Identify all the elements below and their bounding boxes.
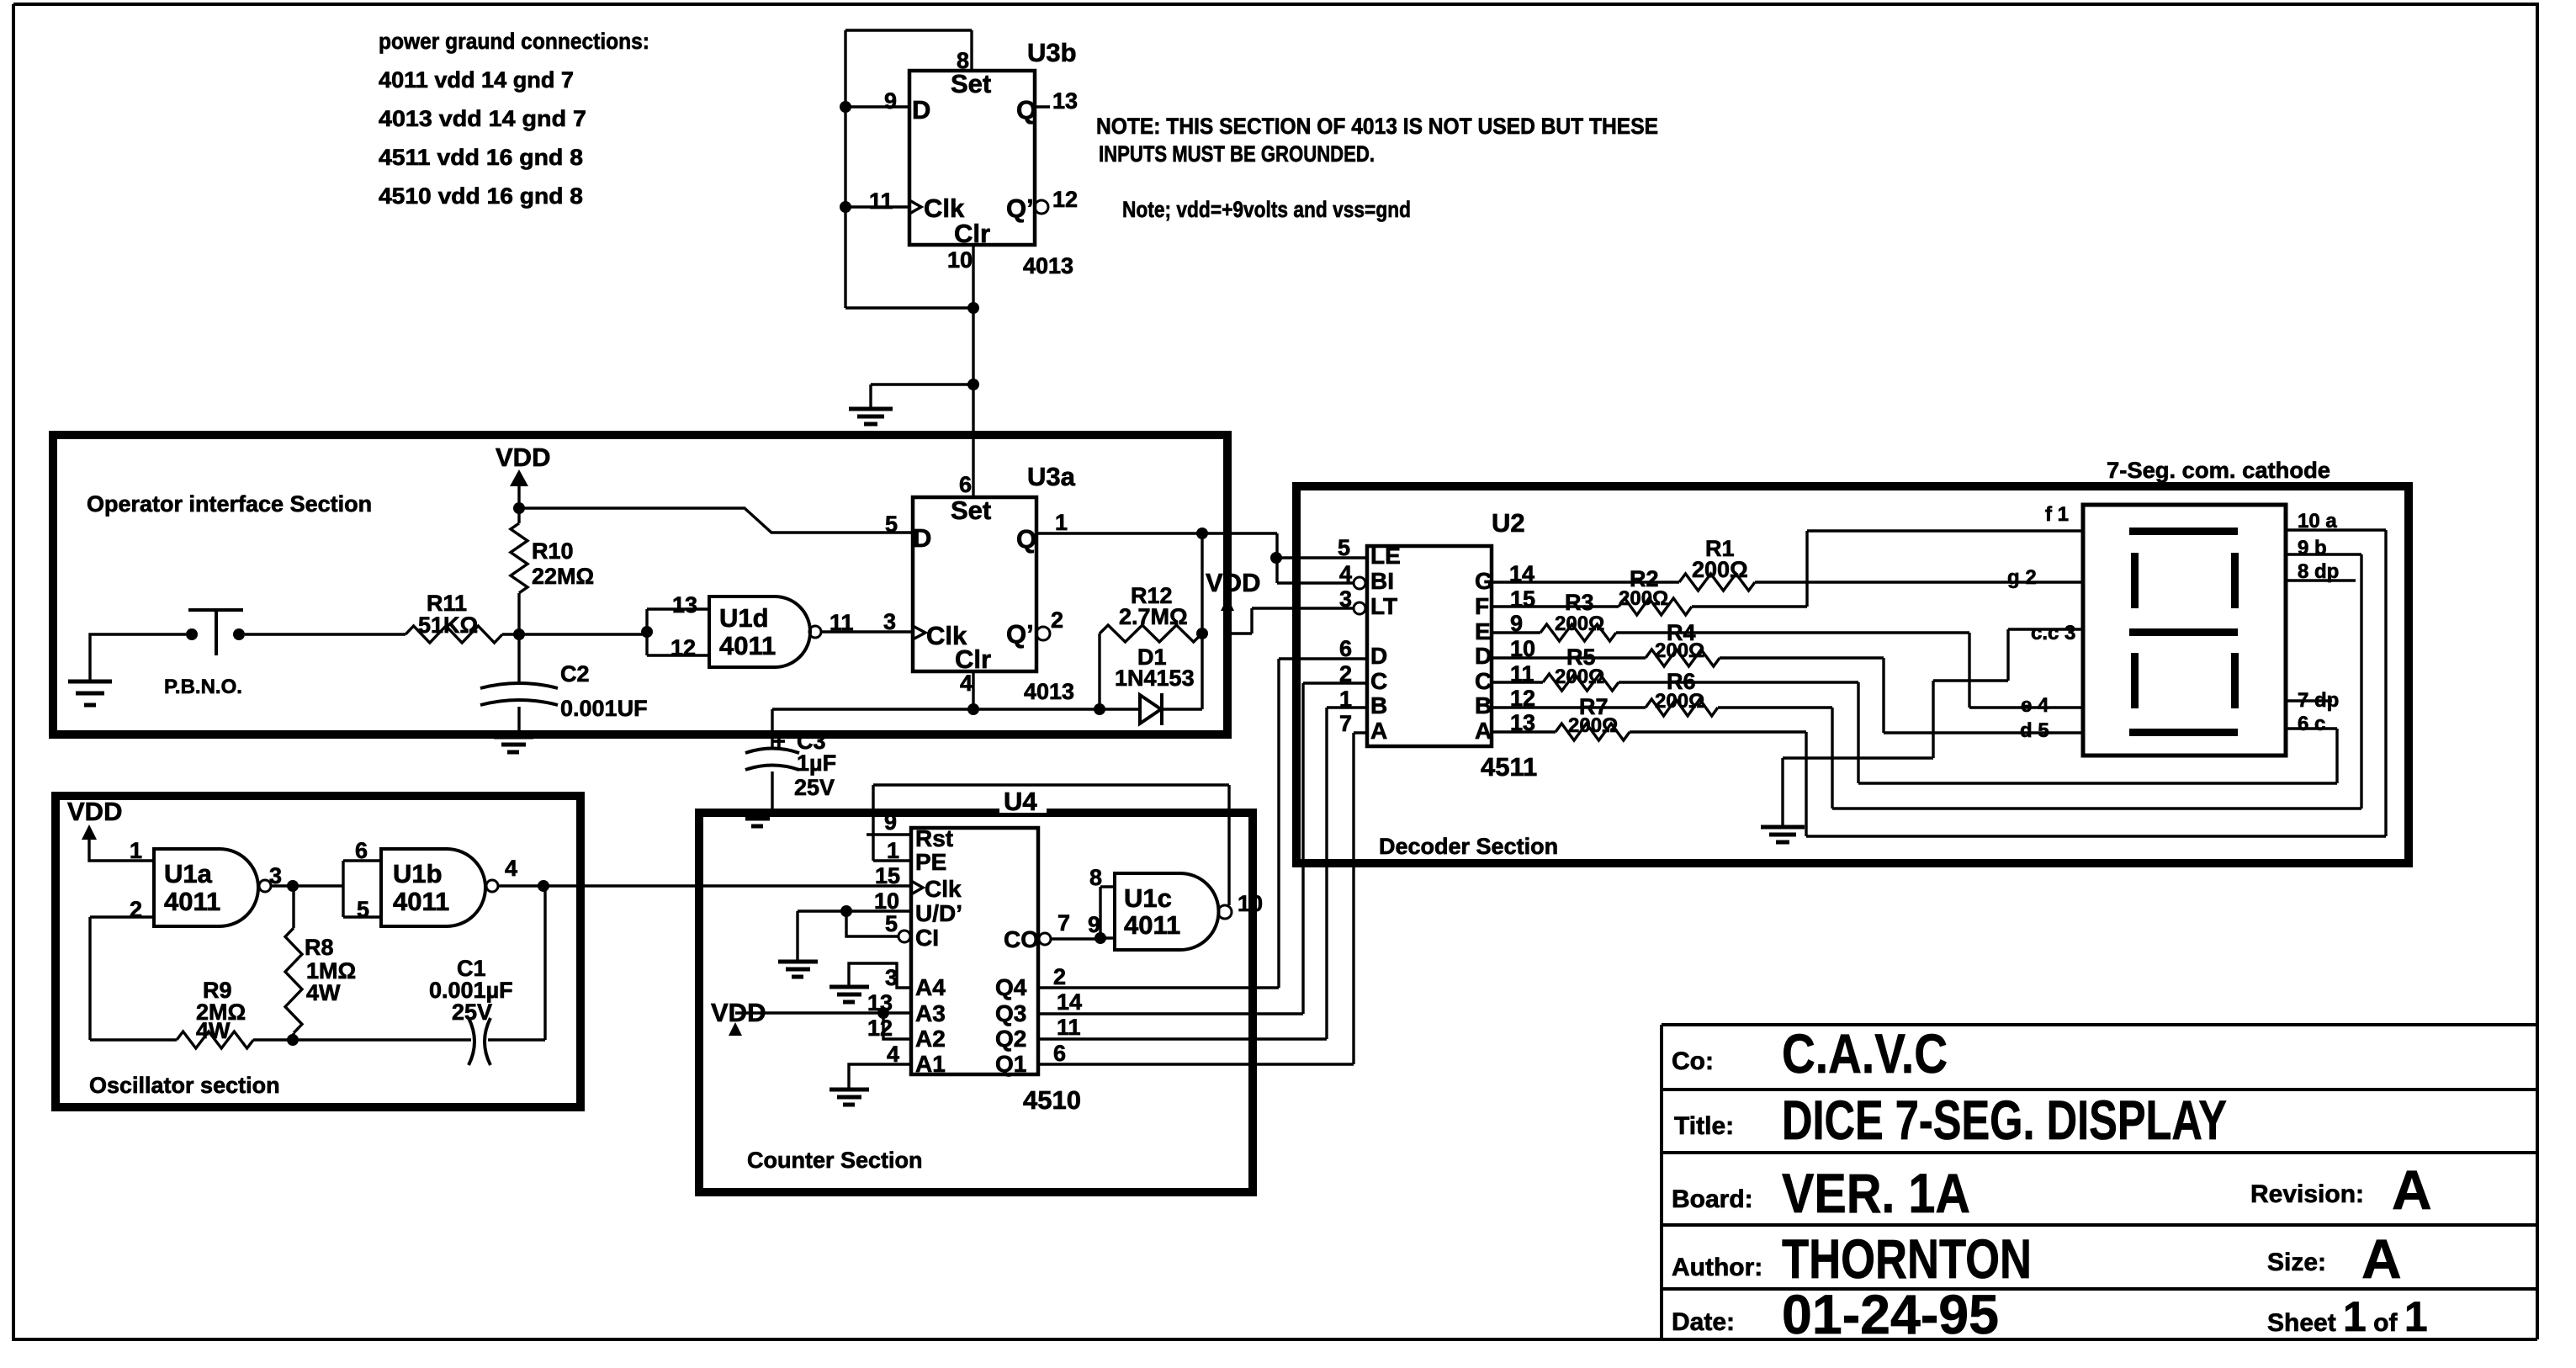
junction LE tee xyxy=(1270,552,1282,564)
svg-text:4013 vdd 14 gnd 7: 4013 vdd 14 gnd 7 xyxy=(379,106,586,131)
NAND gate U1b xyxy=(381,849,485,926)
wire R4 to display d xyxy=(1720,658,2083,733)
wire Clr line xyxy=(772,708,1140,710)
wire U2 E row xyxy=(1492,631,1540,634)
svg-text:Q1: Q1 xyxy=(995,1051,1026,1077)
ground below C3 xyxy=(738,811,777,826)
svg-text:Q’: Q’ xyxy=(1006,194,1034,223)
svg-text:e 4: e 4 xyxy=(2021,694,2049,717)
wire U1a out to U1b xyxy=(271,884,343,887)
svg-text:A: A xyxy=(2392,1159,2432,1221)
svg-text:A: A xyxy=(2361,1227,2402,1290)
wire PE stub xyxy=(873,859,909,862)
svg-text:8: 8 xyxy=(957,48,969,73)
svg-text:4: 4 xyxy=(1339,561,1352,586)
wire U2 D row xyxy=(1492,656,1646,659)
svg-text:9 b: 9 b xyxy=(2298,537,2327,559)
ground symbol below U3b xyxy=(849,409,893,424)
svg-text:Q’: Q’ xyxy=(1006,619,1034,649)
svg-text:13: 13 xyxy=(672,592,697,618)
U3b clk input chevron xyxy=(909,200,921,214)
junction R8 bottom xyxy=(287,1034,299,1046)
svg-text:U1d: U1d xyxy=(719,603,769,633)
wire Q2 out xyxy=(1038,708,1367,1039)
svg-text:Q2: Q2 xyxy=(995,1026,1026,1052)
svg-text:4510: 4510 xyxy=(1023,1085,1081,1115)
flip-flop U3a box xyxy=(913,497,1036,671)
svg-text:7 dp: 7 dp xyxy=(2298,689,2339,712)
U3b Q' bubble pin 12 xyxy=(1035,200,1048,214)
svg-text:U1a: U1a xyxy=(164,859,213,888)
ground at A1 xyxy=(830,1090,869,1105)
resistor R10 xyxy=(517,508,520,523)
wire A2 tie xyxy=(883,1013,909,1039)
capacitor C1 xyxy=(469,1018,474,1065)
CO bubble xyxy=(1039,933,1051,945)
svg-text:+: + xyxy=(772,729,786,754)
wire ground stem xyxy=(869,384,872,407)
svg-text:Decoder Section: Decoder Section xyxy=(1379,834,1558,859)
wire D1 cathode to R12 vertical xyxy=(1162,708,1202,710)
wire LE feed xyxy=(1276,556,1367,559)
resistor R12 xyxy=(1100,625,1202,642)
U4 label xyxy=(999,793,1047,813)
wire A1 to ground xyxy=(849,1064,909,1088)
resistor R9 xyxy=(177,1031,253,1048)
BI bubble xyxy=(1354,577,1365,589)
svg-text:12: 12 xyxy=(671,635,696,660)
svg-text:2: 2 xyxy=(130,897,142,922)
svg-text:200Ω: 200Ω xyxy=(1555,665,1604,688)
junction D1 anode branch xyxy=(1094,703,1105,715)
title block row lines xyxy=(1662,1088,2537,1091)
svg-text:A3: A3 xyxy=(915,1000,946,1026)
wire U3b pin8 set stem xyxy=(970,30,973,71)
svg-text:C.A.V.C: C.A.V.C xyxy=(1782,1022,1948,1084)
svg-text:THORNTON: THORNTON xyxy=(1782,1227,2032,1290)
wire U3b feedback top xyxy=(845,29,972,31)
wire U3b Clk pin 11 xyxy=(845,205,909,208)
wire switch to R11 xyxy=(245,633,405,635)
VDD arrow oscillator xyxy=(82,825,97,840)
svg-text:5: 5 xyxy=(885,911,898,936)
svg-text:200Ω: 200Ω xyxy=(1568,714,1618,737)
svg-text:15: 15 xyxy=(875,863,900,888)
svg-text:5: 5 xyxy=(1338,535,1350,560)
svg-text:11: 11 xyxy=(869,188,893,214)
svg-text:Co:: Co: xyxy=(1672,1047,1714,1075)
wire U3b Q pin 13 stub xyxy=(1035,105,1050,108)
svg-text:U2: U2 xyxy=(1492,508,1525,538)
svg-text:4W: 4W xyxy=(196,1018,231,1043)
wire BI feed xyxy=(1277,581,1354,584)
svg-text:4011: 4011 xyxy=(164,887,220,916)
svg-text:200Ω: 200Ω xyxy=(1655,690,1704,713)
svg-text:6: 6 xyxy=(355,838,368,863)
svg-text:0.001UF: 0.001UF xyxy=(560,696,648,721)
svg-text:6: 6 xyxy=(1339,636,1352,661)
LT bubble xyxy=(1354,602,1365,614)
svg-text:Board:: Board: xyxy=(1672,1185,1753,1213)
svg-text:Q: Q xyxy=(1016,95,1036,125)
svg-text:5: 5 xyxy=(357,897,369,922)
svg-text:4W: 4W xyxy=(306,980,341,1005)
resistor R2 xyxy=(1619,598,1692,615)
wire R12 left vertical xyxy=(1098,634,1100,709)
wire R12 right vertical xyxy=(1201,533,1203,709)
svg-text:1: 1 xyxy=(130,838,142,863)
svg-text:A2: A2 xyxy=(915,1026,946,1052)
svg-text:C2: C2 xyxy=(560,661,590,687)
VDD arrow on border xyxy=(1221,597,1234,611)
junction ground tee xyxy=(967,379,979,390)
wire U3b feedback bottom xyxy=(845,306,973,309)
svg-text:B: B xyxy=(1370,692,1387,718)
wire Q1 out xyxy=(1038,733,1367,1064)
svg-text:PE: PE xyxy=(915,849,946,875)
svg-text:200Ω: 200Ω xyxy=(1655,639,1704,662)
svg-text:4510 vdd 16 gnd 8: 4510 vdd 16 gnd 8 xyxy=(379,183,583,209)
junction U3b Clk xyxy=(840,201,851,213)
ground decoder xyxy=(1761,827,1805,842)
wire R9 to C1 xyxy=(253,1038,471,1041)
svg-text:U4: U4 xyxy=(1004,787,1037,816)
wire U2 F row xyxy=(1492,605,1619,607)
svg-text:7-Seg. com. cathode: 7-Seg. com. cathode xyxy=(2107,458,2330,483)
svg-text:13: 13 xyxy=(1052,88,1078,114)
wire U2 B row xyxy=(1492,706,1646,708)
resistor R1 xyxy=(1679,574,1755,591)
svg-text:Author:: Author: xyxy=(1672,1254,1762,1281)
wire Q4 out xyxy=(1038,659,1367,988)
svg-text:8 dp: 8 dp xyxy=(2298,560,2339,583)
svg-text:Clr: Clr xyxy=(955,644,991,674)
push button P.B.N.O. xyxy=(186,628,198,640)
wire U/D ground stem xyxy=(796,911,798,960)
svg-text:14: 14 xyxy=(1057,989,1082,1015)
svg-text:BI: BI xyxy=(1370,568,1394,594)
ground at U/D xyxy=(778,962,818,977)
resistor R7 xyxy=(1556,724,1630,740)
svg-text:VDD: VDD xyxy=(496,443,550,472)
wire R3 to display e xyxy=(1616,633,2083,708)
capacitor C3 xyxy=(771,709,773,748)
wire Rst xyxy=(867,833,909,835)
svg-text:F: F xyxy=(1475,593,1489,619)
U3a Q' bubble xyxy=(1036,627,1050,640)
svg-text:Clr: Clr xyxy=(954,219,990,248)
svg-text:3: 3 xyxy=(1339,586,1352,612)
wire R11 to U1d input xyxy=(502,633,647,635)
svg-text:VDD: VDD xyxy=(1206,568,1260,597)
svg-text:4013: 4013 xyxy=(1023,253,1073,278)
wire U3a Q output xyxy=(1036,532,1277,534)
wire U3b Clr pin 10 down xyxy=(972,245,974,384)
svg-text:Size:: Size: xyxy=(2267,1249,2326,1276)
svg-text:2: 2 xyxy=(1051,607,1063,633)
junction VDD / R10 / D-wire xyxy=(513,502,525,514)
svg-text:R8: R8 xyxy=(305,935,334,960)
svg-text:CO: CO xyxy=(1004,926,1039,952)
U1c input bracket xyxy=(1100,887,1115,938)
svg-text:9: 9 xyxy=(884,88,897,114)
svg-text:4: 4 xyxy=(960,671,973,696)
svg-text:D: D xyxy=(913,523,931,553)
wire C1 to right vertical xyxy=(488,886,545,1040)
U1d output bubble xyxy=(809,626,821,638)
junction U1c inputs xyxy=(1095,932,1106,944)
U1b input bracket xyxy=(343,861,381,917)
junction Clr xyxy=(967,703,979,715)
wire VDD to U1a pin1 xyxy=(89,838,154,861)
junction Q / R12 branch xyxy=(1196,528,1208,539)
svg-text:1: 1 xyxy=(1055,510,1068,535)
svg-text:2: 2 xyxy=(1053,964,1066,989)
svg-text:Set: Set xyxy=(951,69,991,98)
segment g bar xyxy=(2129,628,2238,636)
svg-text:1: 1 xyxy=(1339,687,1352,712)
svg-text:Q3: Q3 xyxy=(995,1000,1026,1026)
svg-text:2: 2 xyxy=(1339,661,1352,687)
svg-text:25V: 25V xyxy=(452,999,492,1025)
wire VDD arrow stem xyxy=(517,483,520,508)
junction A3/A2 xyxy=(877,1007,889,1019)
svg-text:R3: R3 xyxy=(1565,590,1594,615)
resistor R3 xyxy=(1540,624,1616,641)
U1b output bubble xyxy=(486,880,498,892)
svg-text:P.B.N.O.: P.B.N.O. xyxy=(164,676,242,698)
Decoder Section box xyxy=(1296,486,2409,863)
wire U2 G row xyxy=(1492,581,1679,583)
wire dp stub 8 xyxy=(2286,579,2356,581)
svg-text:DICE 7-SEG. DISPLAY: DICE 7-SEG. DISPLAY xyxy=(1782,1089,2227,1151)
svg-text:10: 10 xyxy=(947,247,973,273)
wire U2 A row xyxy=(1492,730,1556,733)
Counter Section box xyxy=(699,813,1253,1192)
svg-text:200Ω: 200Ω xyxy=(1692,557,1748,582)
svg-text:VER. 1A: VER. 1A xyxy=(1782,1162,1970,1224)
svg-text:1µF: 1µF xyxy=(797,750,836,776)
svg-text:4013: 4013 xyxy=(1024,679,1074,704)
counter U4 chip box xyxy=(911,828,1038,1074)
NAND gate U1c xyxy=(1115,873,1219,950)
CI bubble xyxy=(898,931,910,942)
segment c bar xyxy=(2231,653,2239,708)
U4 clk chevron xyxy=(911,881,923,894)
wire U1b out to counter clk xyxy=(498,884,910,887)
wire Q3 out xyxy=(1038,683,1367,1014)
svg-text:5: 5 xyxy=(885,512,898,537)
svg-text:NOTE: THIS SECTION OF 4013 IS: NOTE: THIS SECTION OF 4013 IS NOT USED B… xyxy=(1096,114,1658,139)
segment b bar xyxy=(2231,553,2239,608)
VDD arrow counter xyxy=(729,1022,742,1036)
wire feedback left vertical xyxy=(88,917,91,1040)
segment f bar xyxy=(2131,553,2139,608)
svg-text:9: 9 xyxy=(884,809,897,835)
wire U3b feedback left vertical xyxy=(844,30,846,308)
svg-text:1N4153: 1N4153 xyxy=(1115,665,1195,691)
svg-text:Counter Section: Counter Section xyxy=(747,1148,923,1173)
svg-text:7: 7 xyxy=(1057,910,1070,936)
wire common cathode to ground xyxy=(1783,629,2083,825)
svg-text:INPUTS MUST BE GROUNDED.: INPUTS MUST BE GROUNDED. xyxy=(1099,141,1375,167)
resistor R6 xyxy=(1646,699,1718,716)
svg-text:01-24-95: 01-24-95 xyxy=(1782,1283,1999,1345)
title block outer xyxy=(1662,1025,2537,1339)
svg-text:U3a: U3a xyxy=(1027,462,1076,491)
decoder U2 chip box xyxy=(1367,546,1492,746)
svg-text:4: 4 xyxy=(505,856,517,881)
svg-text:A: A xyxy=(1475,718,1492,744)
wire CI tie xyxy=(846,911,898,936)
diode D1 xyxy=(1140,695,1161,724)
svg-text:A1: A1 xyxy=(915,1051,946,1077)
resistor R5 xyxy=(1543,674,1619,691)
svg-text:g 2: g 2 xyxy=(2007,566,2037,589)
svg-text:Date:: Date: xyxy=(1672,1308,1735,1336)
wire dp stub 7 xyxy=(2286,699,2332,702)
svg-text:B: B xyxy=(1475,692,1492,718)
ground below C2 xyxy=(494,737,533,752)
wire U1a pin2 xyxy=(90,915,154,918)
svg-text:D: D xyxy=(912,95,930,125)
VDD arrow above R10 xyxy=(510,469,528,486)
wire VDD to A3 xyxy=(735,1011,909,1014)
junction U1d inputs xyxy=(641,626,653,638)
svg-text:6: 6 xyxy=(959,472,972,497)
svg-text:22MΩ: 22MΩ xyxy=(532,564,594,589)
svg-text:8: 8 xyxy=(1089,865,1102,890)
ground at push button xyxy=(68,681,112,705)
svg-text:Q4: Q4 xyxy=(995,974,1027,1000)
junction U3b Clr xyxy=(967,302,979,314)
svg-text:4511 vdd 16 gnd 8: 4511 vdd 16 gnd 8 xyxy=(379,145,583,170)
wire D jog from VDD junction to U3a D xyxy=(519,508,913,533)
U1d input bracket xyxy=(647,609,709,655)
junction U/D / CI xyxy=(840,905,852,917)
svg-text:U3b: U3b xyxy=(1027,38,1077,67)
svg-text:U1c: U1c xyxy=(1124,883,1172,913)
wire Rst loop top xyxy=(873,783,1229,786)
svg-text:U1b: U1b xyxy=(393,859,443,888)
wire Rst/PE vertical xyxy=(872,785,874,861)
svg-text:200Ω: 200Ω xyxy=(1619,587,1668,610)
U1c output bubble xyxy=(1218,905,1232,919)
svg-text:6: 6 xyxy=(1053,1041,1066,1066)
svg-text:f 1: f 1 xyxy=(2045,503,2069,526)
svg-text:Q: Q xyxy=(1016,524,1036,554)
svg-text:LE: LE xyxy=(1370,543,1401,569)
wire U3b D pin 9 xyxy=(845,105,909,108)
ground at A4 xyxy=(830,987,869,1002)
junction C1 right top xyxy=(538,880,549,892)
svg-text:4511: 4511 xyxy=(1481,752,1537,782)
svg-text:10 a: 10 a xyxy=(2298,510,2337,533)
Operator interface Section box xyxy=(53,435,1227,734)
svg-text:D: D xyxy=(1370,643,1387,669)
wire ground to switch xyxy=(90,634,186,680)
svg-text:Oscillator section: Oscillator section xyxy=(89,1073,280,1098)
svg-text:R10: R10 xyxy=(532,538,574,564)
svg-text:4011: 4011 xyxy=(719,631,776,660)
junction R10/R11/C2 xyxy=(513,628,525,640)
segment a bar xyxy=(2129,528,2238,535)
svg-text:Rst: Rst xyxy=(915,825,953,851)
svg-text:C: C xyxy=(1475,668,1492,694)
svg-text:12: 12 xyxy=(1052,187,1078,212)
svg-text:4011: 4011 xyxy=(393,887,449,916)
wire R1 to display g xyxy=(1755,581,2083,583)
wire Q down to LE/BI xyxy=(1275,533,1278,583)
svg-text:Operator interface Section: Operator interface Section xyxy=(87,491,372,517)
svg-text:power graund connections:: power graund connections: xyxy=(379,29,649,54)
svg-text:3: 3 xyxy=(883,609,896,634)
resistor R11 xyxy=(405,626,502,643)
resistor R8 xyxy=(292,886,294,928)
svg-text:12: 12 xyxy=(867,1015,893,1041)
U3a clk chevron xyxy=(913,626,925,639)
wire U1d out to U3a Clk xyxy=(821,630,913,633)
svg-text:51KΩ: 51KΩ xyxy=(418,612,478,638)
svg-text:Clk: Clk xyxy=(925,876,962,902)
junction R8 top xyxy=(287,880,299,892)
Oscillator section box xyxy=(56,796,580,1107)
svg-text:11: 11 xyxy=(1057,1015,1081,1040)
U1a output bubble xyxy=(259,880,271,892)
wire U2 C row xyxy=(1492,681,1543,683)
wire R5 to display c xyxy=(1619,682,2337,783)
wire R2 to display f xyxy=(1692,531,2083,607)
wire A4 staircase xyxy=(849,963,909,988)
flip-flop U3b box xyxy=(909,71,1035,245)
svg-text:4011: 4011 xyxy=(1124,910,1180,940)
svg-text:Set: Set xyxy=(951,496,991,525)
svg-text:Note; vdd=+9volts and vss=gnd: Note; vdd=+9volts and vss=gnd xyxy=(1122,197,1411,222)
svg-text:CI: CI xyxy=(915,925,939,951)
resistor R4 xyxy=(1646,650,1720,666)
segment d bar xyxy=(2129,729,2238,736)
junction U3b D xyxy=(840,101,851,113)
wire U3a Clr stem xyxy=(972,671,974,709)
wire R7 to display a xyxy=(1630,530,2386,836)
wire U/D input xyxy=(798,909,909,912)
svg-text:6 c: 6 c xyxy=(2298,713,2325,735)
svg-text:LT: LT xyxy=(1370,593,1397,619)
svg-text:7: 7 xyxy=(1339,711,1352,736)
svg-text:VDD: VDD xyxy=(67,797,122,826)
wire R6 to display b xyxy=(1718,554,2361,809)
svg-text:4011 vdd 14 gnd 7: 4011 vdd 14 gnd 7 xyxy=(379,67,574,93)
svg-text:c.c 3: c.c 3 xyxy=(2031,622,2075,644)
svg-text:Revision:: Revision: xyxy=(2250,1180,2364,1208)
svg-text:C: C xyxy=(1370,668,1387,694)
svg-text:A: A xyxy=(1370,718,1387,744)
NAND gate U1d xyxy=(709,597,810,667)
svg-text:25V: 25V xyxy=(794,775,835,800)
capacitor C2 xyxy=(517,634,520,683)
svg-text:Title:: Title: xyxy=(1674,1112,1734,1140)
svg-text:E: E xyxy=(1475,618,1491,644)
wire U3b to U3a Set xyxy=(972,384,974,497)
wire LT feed from VDD rail xyxy=(1229,608,1354,634)
svg-text:D: D xyxy=(1475,643,1492,669)
segment e bar xyxy=(2131,653,2139,708)
svg-text:G: G xyxy=(1475,568,1493,594)
7-seg display box xyxy=(2083,505,2286,756)
svg-text:d 5: d 5 xyxy=(2020,719,2049,742)
wire CO to U1c xyxy=(1052,937,1100,940)
wire ground tee xyxy=(871,383,973,385)
